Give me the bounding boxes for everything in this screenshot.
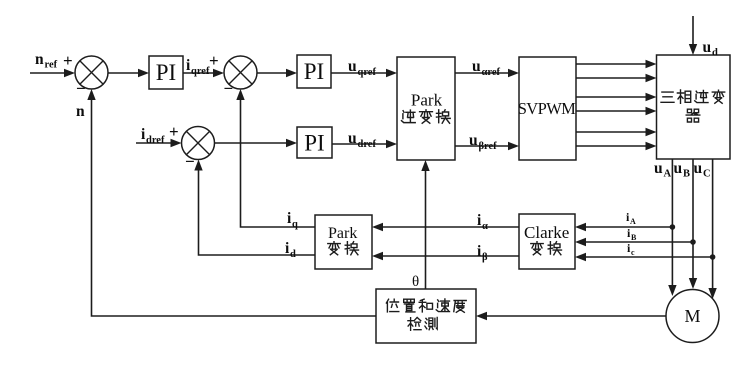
label plus at S3 [169, 122, 179, 141]
label i_q [287, 210, 298, 230]
label SVPWM text [518, 99, 576, 118]
label minus at S1 [76, 79, 86, 98]
label position CJK 位置和速度 [386, 299, 466, 312]
svg-text:u: u [654, 160, 663, 177]
wire i_dref input [136, 139, 182, 147]
wire theta to Park inverse [421, 160, 429, 289]
label i_beta [477, 243, 488, 263]
label Park inverse CJK 逆变换 [402, 110, 451, 123]
svg-text:ref: ref [45, 60, 58, 71]
block Park transform [315, 215, 372, 269]
label i_A [626, 210, 636, 226]
svg-text:A: A [630, 217, 636, 226]
svg-text:β: β [482, 252, 488, 263]
svg-text:PI: PI [156, 60, 176, 85]
wire i_B to Clarke [575, 238, 693, 246]
wire i_q feedback to S2 [236, 89, 315, 227]
svg-text:q: q [292, 219, 298, 230]
svg-text:−: − [185, 152, 195, 171]
block Park inverse transform [397, 57, 455, 160]
svg-text:n: n [35, 51, 44, 68]
label u_d [703, 39, 719, 59]
svg-text:PI: PI [304, 131, 324, 156]
wire Clarke to Park (i_alpha) [372, 223, 519, 231]
svg-text:+: + [209, 51, 219, 70]
label i_B [627, 226, 637, 242]
label inverter CJK 三相逆变 [661, 90, 725, 103]
wire SVPWM to inverter 2 [576, 74, 657, 82]
label Clarke CJK 变换 [531, 242, 562, 255]
svg-text:qref: qref [358, 67, 377, 78]
svg-text:−: − [224, 79, 234, 98]
wire inverter phase A down [668, 159, 676, 296]
wire Park inverse to SVPWM (u_alpha_ref) [455, 69, 519, 77]
svg-text:θ: θ [412, 274, 419, 290]
wire S3 to PI3 [215, 139, 298, 147]
svg-text:u: u [348, 130, 357, 147]
svg-text:qref: qref [191, 66, 210, 77]
svg-text:B: B [631, 233, 637, 242]
svg-text:−: − [76, 79, 86, 98]
label Park transform CJK 变换 [328, 242, 359, 255]
label Park transform title [328, 225, 357, 242]
wire speed feedback n to S1 [87, 89, 376, 316]
label minus at S3 [185, 152, 195, 171]
wire SVPWM to inverter 6 [576, 142, 657, 150]
svg-text:u: u [694, 160, 703, 177]
junction C [710, 254, 716, 260]
motor M [666, 290, 719, 343]
svg-text:+: + [169, 122, 179, 141]
label u_B [674, 160, 691, 180]
label inverter CJK 器 [686, 109, 700, 122]
svg-text:d: d [712, 48, 718, 59]
label u_beta_ref [469, 132, 497, 152]
label PI3 text [304, 131, 324, 156]
label n feedback [76, 103, 85, 120]
svg-text:M: M [684, 306, 700, 326]
svg-text:u: u [469, 132, 478, 149]
wire SVPWM to inverter 1 [576, 60, 657, 68]
svg-text:d: d [290, 249, 296, 260]
svg-text:+: + [63, 51, 73, 70]
label i_dref [141, 126, 165, 146]
svg-text:dref: dref [358, 139, 377, 150]
label u_A [654, 160, 672, 180]
svg-text:α: α [482, 221, 488, 232]
label i_d [285, 240, 296, 260]
wire motor to position-speed block [476, 312, 666, 320]
wire PI1 to S2 [183, 69, 224, 77]
wire Park inverse to SVPWM (u_beta_ref) [455, 142, 519, 150]
label minus at S2 [224, 79, 234, 98]
svg-text:Clarke: Clarke [524, 223, 569, 242]
wire n_ref input [30, 69, 75, 77]
svg-text:u: u [703, 39, 712, 56]
wire u_d supply input [689, 16, 697, 55]
summing junction S1 [75, 56, 108, 89]
label i_alpha [477, 212, 488, 232]
label PI2 text [304, 59, 324, 84]
block PI2 [297, 55, 331, 88]
block position and speed detection [376, 289, 476, 343]
svg-text:n: n [76, 103, 85, 120]
svg-text:Park: Park [328, 225, 357, 242]
label Clarke title [524, 223, 569, 242]
label n_ref [35, 51, 58, 71]
svg-text:u: u [348, 58, 357, 75]
label i_qref [186, 57, 210, 77]
svg-text:dref: dref [146, 135, 165, 146]
wire SVPWM to inverter 5 [576, 128, 657, 136]
svg-text:u: u [472, 58, 481, 75]
svg-text:C: C [703, 169, 711, 180]
wire SVPWM to inverter 4 [576, 107, 657, 115]
summing junction S3 [182, 127, 215, 160]
svg-text:A: A [664, 169, 672, 180]
block PI1 [149, 56, 183, 89]
svg-text:B: B [683, 169, 690, 180]
wire PI3 to Park inverse (u_dref) [332, 140, 397, 148]
label position CJK 检测 [408, 317, 437, 330]
block SVPWM [519, 57, 576, 160]
label plus at S1 [63, 51, 73, 70]
wire i_d feedback to S3 [194, 160, 315, 256]
label plus at S2 [209, 51, 219, 70]
svg-text:c: c [631, 248, 635, 257]
junction B [690, 239, 696, 245]
wire i_c to Clarke [575, 253, 713, 261]
block PI3 [297, 127, 332, 158]
label i_c [627, 241, 635, 257]
label theta [412, 274, 419, 290]
svg-text:SVPWM: SVPWM [518, 99, 576, 118]
svg-text:Park: Park [411, 91, 443, 110]
label PI1 text [156, 60, 176, 85]
wire inverter phase C down [708, 159, 716, 299]
wire PI2 to Park inverse (u_qref) [331, 69, 397, 77]
label u_qref [348, 58, 376, 78]
junction A [670, 224, 676, 230]
wire S1 to PI1 [108, 69, 149, 77]
label u_C [694, 160, 711, 180]
wire inverter phase B down [689, 159, 697, 289]
block Clarke transform [519, 214, 575, 269]
label u_alpha_ref [472, 58, 500, 78]
wire S2 to PI2 [257, 69, 297, 77]
label Park inverse title [411, 91, 443, 110]
svg-text:βref: βref [479, 141, 498, 152]
svg-text:u: u [674, 160, 683, 177]
summing junction S2 [224, 56, 257, 89]
svg-text:PI: PI [304, 59, 324, 84]
svg-text:αref: αref [482, 67, 501, 78]
label u_dref [348, 130, 376, 150]
block three-phase inverter [657, 55, 731, 159]
wire SVPWM to inverter 3 [576, 93, 657, 101]
wire Clarke to Park (i_beta) [372, 252, 519, 260]
wire i_A to Clarke [575, 223, 672, 231]
